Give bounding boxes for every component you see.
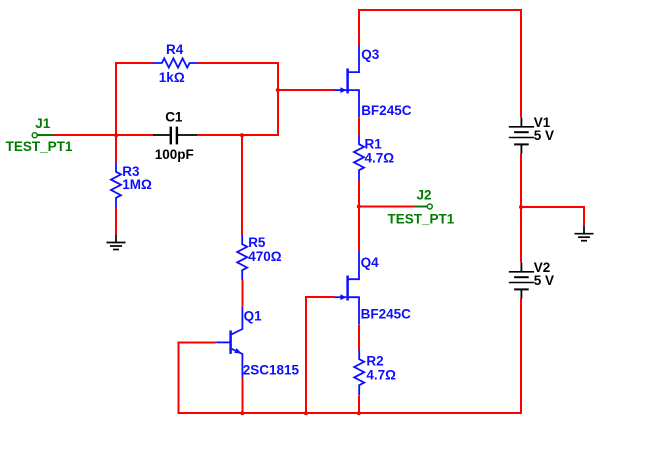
svg-text:R2: R2 <box>366 354 383 369</box>
svg-text:5 V: 5 V <box>534 128 554 143</box>
svg-text:J1: J1 <box>35 116 51 131</box>
wire: bottom rail <box>178 412 521 414</box>
node E junction dot (V1/V2/ground) <box>519 205 523 209</box>
wire: left drop from base wire to bottom rail <box>177 342 179 414</box>
wire: green lead at J1 <box>36 134 54 136</box>
wire: R2 bottom to rail <box>358 395 360 413</box>
test point J2 <box>427 204 432 209</box>
svg-text:4.7Ω: 4.7Ω <box>365 150 395 165</box>
wire: Q4 source to R2 <box>358 324 360 350</box>
svg-text:1MΩ: 1MΩ <box>122 177 152 192</box>
wire: top rail from Q3 drain to V1 <box>359 10 521 118</box>
transistor Q4 gate arrow <box>340 294 346 300</box>
wire: Q1 base wire <box>177 341 216 343</box>
resistor R1 (vertical, 4.7) <box>354 135 364 180</box>
resistor R3 (vertical, 1M) <box>111 163 121 208</box>
node D junction dot (R1/J2/Q4) <box>357 205 361 209</box>
wire: node D to J2 (red part) <box>359 206 415 208</box>
capacitor C1 <box>153 127 198 145</box>
svg-text:4.7Ω: 4.7Ω <box>366 367 396 382</box>
resistor R5 (vertical, 470) <box>237 235 247 280</box>
battery V1 <box>509 118 534 154</box>
svg-text:Q1: Q1 <box>244 309 263 324</box>
svg-text:R5: R5 <box>248 235 266 250</box>
svg-text:R1: R1 <box>365 136 383 151</box>
wire: node A to C1 left <box>116 134 153 136</box>
svg-text:BF245C: BF245C <box>361 306 412 321</box>
svg-text:100pF: 100pF <box>155 147 194 162</box>
wire: Q3 source to R1 <box>358 117 360 135</box>
junction dot R2/rail <box>357 411 361 415</box>
transistor Q3 (JFET BF245C) <box>335 45 360 117</box>
junction dot Q1 emitter/rail <box>240 411 244 415</box>
wire: node C down to R5 <box>241 135 243 235</box>
transistor Q4 (JFET BF245C) <box>335 252 360 324</box>
ground (right, at node E) <box>575 226 594 241</box>
wire: R1 bottom through node D to Q4 drain <box>358 180 360 252</box>
resistor R4 (horizontal, 1k) <box>153 58 198 67</box>
junction dot Q4 gate wire/rail <box>304 411 308 415</box>
svg-text:Q4: Q4 <box>361 255 380 270</box>
transistor Q1 emitter arrow <box>234 348 242 354</box>
wire: Q1 emitter to bottom rail <box>241 378 243 414</box>
wire: Q4 gate wire vertical to bottom rail <box>305 296 307 413</box>
wire: C1 right to R4 vertical <box>198 134 278 136</box>
wire: R4 right lead wire to corner <box>197 62 279 64</box>
svg-text:470Ω: 470Ω <box>248 249 282 264</box>
wire: R5 bottom to Q1 collector <box>241 280 243 307</box>
svg-text:1kΩ: 1kΩ <box>159 70 185 85</box>
svg-text:TEST_PT1: TEST_PT1 <box>6 139 73 154</box>
svg-text:TEST_PT1: TEST_PT1 <box>388 212 455 227</box>
svg-text:J2: J2 <box>417 187 432 202</box>
wire: node B to Q3 gate <box>278 89 335 91</box>
wire: J1 to node A (red part) <box>53 134 117 136</box>
wire: Q4 gate wire horizontal <box>306 296 335 298</box>
test point J1 <box>32 133 37 138</box>
node A junction dot <box>114 133 118 137</box>
wire: R4 left lead wire <box>115 62 153 64</box>
svg-text:2SC1815: 2SC1815 <box>243 363 300 378</box>
wire: green lead at J2 <box>415 206 428 208</box>
transistor Q1 (NPN 2SC1815) <box>216 307 242 378</box>
node B junction dot (R4/Q3 gate) <box>276 88 280 92</box>
svg-text:5 V: 5 V <box>534 273 554 288</box>
svg-text:BF245C: BF245C <box>361 103 412 118</box>
wire: left vertical R4-node A-R3 <box>115 62 117 163</box>
wire: V1 bottom to node E to V2 top <box>520 154 522 263</box>
transistor Q3 gate arrow <box>340 87 346 93</box>
wire: V2 bottom to bottom rail <box>520 299 522 414</box>
battery V2 <box>509 263 534 299</box>
svg-text:C1: C1 <box>165 110 183 125</box>
svg-text:Q3: Q3 <box>361 47 380 62</box>
svg-text:R4: R4 <box>166 42 184 57</box>
wire: R3 bottom to ground <box>115 207 117 235</box>
node C junction dot (C1/R5) <box>240 133 244 137</box>
wire: node E to right ground <box>521 207 584 226</box>
resistor R2 (vertical, 4.7) <box>354 350 364 395</box>
wire: R4 right vertical down to C1 row <box>277 62 279 136</box>
ground (left, under R3) <box>107 235 126 249</box>
